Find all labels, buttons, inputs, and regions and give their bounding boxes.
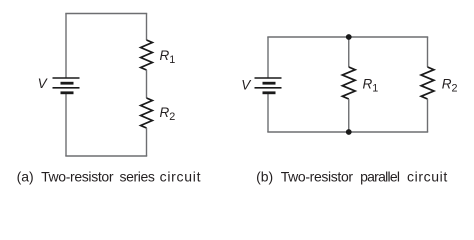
svg-text:(b)Two-resistorparallelcircuit: (b)Two-resistorparallelcircuit	[256, 169, 448, 185]
battery V (b) bottom short plate	[263, 91, 276, 94]
wire: (b) top horizontal	[267, 36, 428, 38]
svg-text:R2: R2	[442, 77, 458, 95]
wire: (b) left side upper segment (battery top plate to top-left corner)	[267, 37, 269, 78]
svg-text:(a)Two-resistorseriescircuit: (a)Two-resistorseriescircuit	[17, 169, 202, 185]
svg-text:V: V	[38, 76, 49, 91]
wire: (a) bottom horizontal	[65, 155, 147, 157]
resistor R2 (a) zigzag	[141, 98, 153, 128]
battery V (b) top long plate	[255, 77, 282, 79]
wire: (b) right side upper segment (top-right corner to R2)	[427, 37, 429, 67]
wire: (a) right side lower segment (R2 to bottom-right corner)	[146, 128, 148, 156]
resistor R2 (b) zigzag	[421, 67, 434, 99]
wire: (b) middle branch upper segment (top node to R1)	[348, 37, 350, 67]
wire: (a) right side upper segment (top-right corner to R1)	[146, 14, 148, 41]
battery V (a) bottom short plate	[61, 91, 74, 94]
battery V (a) top long plate	[53, 77, 80, 79]
wire: (b) right side lower segment (R2 to bottom-right corner)	[427, 99, 429, 132]
svg-text:R2: R2	[160, 105, 176, 123]
wire: (a) left side lower segment (bottom-left corner to battery bottom plate)	[65, 93, 67, 156]
battery V (b) upper short plate	[263, 82, 276, 85]
battery V (a) upper short plate	[61, 82, 74, 85]
junction node dot top	[346, 34, 352, 40]
junction node dot bottom	[346, 129, 352, 135]
svg-text:R1: R1	[363, 77, 379, 95]
wire: (a) right side middle segment (R1 to R2)	[146, 70, 148, 98]
battery V (b) lower long plate	[255, 87, 282, 89]
svg-text:R1: R1	[160, 48, 176, 66]
resistor R1 (b) zigzag	[342, 67, 355, 99]
battery V (a) lower long plate	[53, 87, 80, 89]
wire: (a) left side upper segment (battery top plate to top-left corner)	[65, 14, 67, 79]
wire: (b) bottom horizontal	[267, 131, 428, 133]
wire: (b) left side lower segment (battery bottom plate to bottom-left corner)	[267, 93, 269, 132]
wire: (a) top horizontal	[65, 13, 147, 15]
resistor R1 (a) zigzag	[141, 40, 153, 70]
wire: (b) middle branch lower segment (R1 to bottom node)	[348, 99, 350, 132]
svg-text:V: V	[241, 78, 252, 93]
